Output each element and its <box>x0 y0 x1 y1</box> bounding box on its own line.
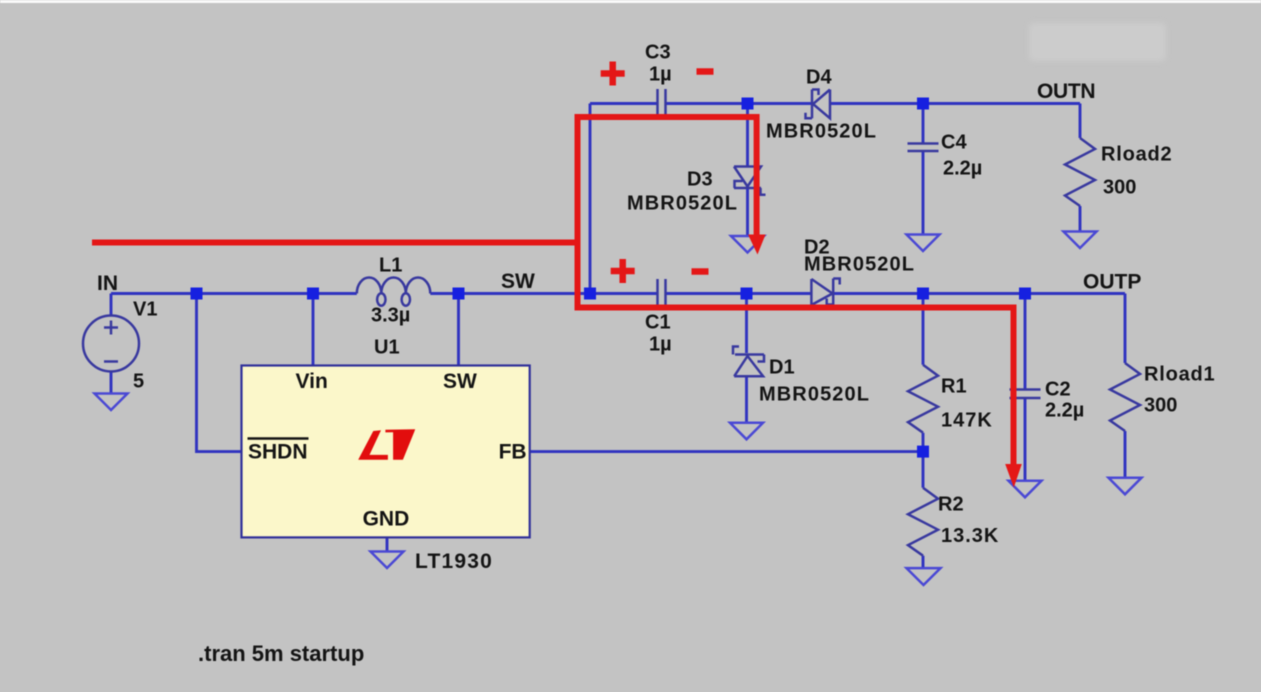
ground below V1 <box>95 394 128 411</box>
capacitor C1 <box>658 279 666 309</box>
junction node Vin <box>307 288 319 300</box>
svg-text:SW: SW <box>443 370 477 393</box>
svg-text:2.2µ: 2.2µ <box>1045 400 1084 422</box>
svg-text:C2: C2 <box>1045 379 1071 401</box>
capacitor C4 <box>908 144 939 152</box>
svg-text:OUTN: OUTN <box>1037 80 1095 103</box>
junction node C2 top <box>1019 288 1031 300</box>
svg-text:2.2µ: 2.2µ <box>943 158 982 180</box>
capacitor C3 <box>658 89 666 119</box>
junction node C1 left <box>584 288 596 300</box>
ground below Rload2 <box>1064 232 1097 249</box>
ground below R2 <box>907 568 941 585</box>
diode D2 <box>811 279 839 306</box>
svg-text:C1: C1 <box>645 312 671 334</box>
svg-text:MBR0520L: MBR0520L <box>766 121 877 143</box>
svg-text:LT1930: LT1930 <box>415 550 493 573</box>
svg-text:MBR0520L: MBR0520L <box>627 193 738 215</box>
svg-text:MBR0520L: MBR0520L <box>759 384 870 406</box>
red highlight path: SW row horizontal segment <box>575 305 1017 311</box>
svg-text:Rload2: Rload2 <box>1101 144 1172 166</box>
svg-text:SW: SW <box>501 270 535 293</box>
wire D1 leads <box>745 294 748 423</box>
junction node IN/SHDN <box>191 288 203 300</box>
junction node FB divider <box>917 446 929 458</box>
ground below C4 <box>907 235 940 252</box>
resistor Rload2 <box>1065 138 1095 206</box>
svg-text:1µ: 1µ <box>649 64 672 86</box>
svg-text:L1: L1 <box>379 255 402 277</box>
wire Rload2 bottom lead <box>1079 206 1082 232</box>
red highlight path: input horizontal segment <box>92 240 581 246</box>
ground below C2 <box>1009 481 1042 498</box>
svg-text:300: 300 <box>1144 395 1177 417</box>
diode D3 <box>734 167 766 195</box>
svg-text:IN: IN <box>97 272 118 295</box>
junction node C3 right / D3 <box>742 98 754 110</box>
inductor L1 <box>357 278 431 306</box>
wire Rload1 bottom lead <box>1124 431 1127 478</box>
svg-text:Rload1: Rload1 <box>1144 364 1215 386</box>
svg-text:FB: FB <box>499 441 527 464</box>
diode D1 <box>733 347 764 377</box>
junction node D4 right / C4 <box>917 98 929 110</box>
ground below Rload1 <box>1109 478 1142 495</box>
red plus sign (C3) <box>601 62 625 86</box>
svg-text:1µ: 1µ <box>649 334 672 356</box>
svg-text:C3: C3 <box>645 42 671 64</box>
svg-text:D4: D4 <box>806 67 832 89</box>
wire OUTP corner down to Rload1 <box>1124 294 1127 364</box>
wire D3 leads <box>746 104 749 237</box>
wire V1 bottom lead <box>110 372 113 394</box>
junction node SW/L1 <box>453 288 465 300</box>
ground below U1 <box>371 552 404 569</box>
red highlight path: top horizontal segment <box>575 114 757 120</box>
wire R1 leads <box>922 294 925 488</box>
svg-text:C4: C4 <box>941 132 967 154</box>
pin label SHDN with overline <box>248 439 309 464</box>
svg-text:147K: 147K <box>941 410 993 432</box>
top white strip <box>0 0 1261 3</box>
ground below D3 <box>731 236 764 253</box>
wire U1 GND pin <box>386 537 389 551</box>
red minus sign (C1) <box>692 268 709 275</box>
junction node C1 right / D1 <box>741 288 753 300</box>
svg-text:GND: GND <box>363 508 410 531</box>
wire FB net <box>530 450 923 453</box>
red highlight path: left vertical segment <box>575 114 581 311</box>
wire SW pin branch <box>457 294 460 366</box>
svg-text:V1: V1 <box>133 299 157 321</box>
svg-text:D1: D1 <box>769 357 795 379</box>
red plus sign (C1) <box>611 259 635 283</box>
svg-text:D3: D3 <box>687 169 713 191</box>
ground below D1 <box>730 423 763 440</box>
voltage source V1 <box>83 316 139 372</box>
resistor Rload1 <box>1110 363 1140 431</box>
wire Vin pin branch <box>312 294 315 366</box>
wire V1 top lead <box>110 294 113 316</box>
diode D4 <box>806 90 831 119</box>
red minus sign (C3) <box>697 68 714 75</box>
svg-text:MBR0520L: MBR0520L <box>804 254 915 276</box>
svg-text:.tran 5m startup: .tran 5m startup <box>198 641 364 666</box>
svg-text:U1: U1 <box>374 337 400 359</box>
wire OUTN corner down to Rload2 <box>1079 104 1082 139</box>
wire C2 leads <box>1024 294 1027 481</box>
svg-text:SHDN: SHDN <box>248 441 308 464</box>
svg-text:3.3µ: 3.3µ <box>371 305 410 327</box>
capacitor C2 <box>1010 390 1041 399</box>
svg-text:300: 300 <box>1103 177 1136 199</box>
faint light rectangle top-right <box>1029 23 1166 61</box>
wire IN row main horizontal <box>111 292 1125 295</box>
wire vertical C3 left leg <box>589 104 592 294</box>
LT logo <box>358 429 415 460</box>
resistor R1 <box>908 365 938 433</box>
svg-text:R2: R2 <box>938 494 964 516</box>
svg-text:R1: R1 <box>941 376 967 398</box>
svg-text:OUTP: OUTP <box>1083 271 1141 294</box>
svg-text:Vin: Vin <box>296 370 328 393</box>
resistor R2 <box>908 488 938 556</box>
junction node D2 right / R1 <box>917 288 929 300</box>
IC U1 LT1930 box <box>242 366 530 538</box>
red highlight path: arrow down through D3 to ground <box>748 114 766 255</box>
red highlight path: arrow down to C2 ground <box>1005 305 1022 488</box>
svg-text:5: 5 <box>133 371 144 393</box>
wire top row (C3/D4/OUTN) <box>590 102 1080 105</box>
wire SHDN branch <box>197 294 242 452</box>
wire C4 leads <box>922 104 925 235</box>
svg-text:13.3K: 13.3K <box>941 525 999 547</box>
wire R2 bottom lead <box>922 556 925 568</box>
